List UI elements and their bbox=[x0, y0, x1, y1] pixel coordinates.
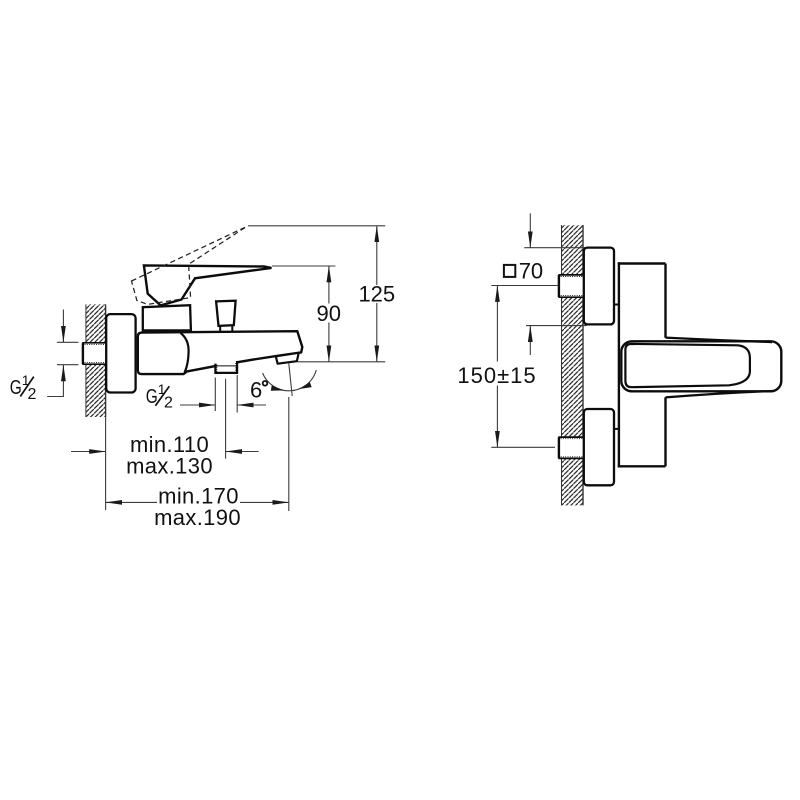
svg-text:70: 70 bbox=[519, 258, 543, 283]
shower stub center extension line bbox=[225, 379, 227, 459]
wall face extension line down bbox=[105, 417, 107, 510]
body/spout joint curve bbox=[181, 333, 189, 373]
svg-text:90: 90 bbox=[317, 301, 341, 326]
extension line at solid handle top bbox=[272, 265, 335, 267]
extension line at spout bottom bbox=[298, 361, 386, 363]
handle lever raised (dashed alternate position) bbox=[132, 227, 247, 305]
lever arm bottom edge bbox=[666, 391, 773, 397]
svg-text:2: 2 bbox=[164, 394, 173, 411]
top stub center extension line bbox=[491, 285, 559, 287]
square-70 dimension down arrow bbox=[529, 213, 531, 247]
escutcheon bottom extension line bbox=[526, 325, 587, 327]
lever arm top edge bbox=[666, 338, 773, 343]
top escutcheon (front) bbox=[584, 248, 614, 325]
inlet stub dimension arrows bbox=[62, 310, 64, 397]
bottom supply stub G1/2 bbox=[558, 437, 584, 459]
handle lever end face (front) bbox=[625, 344, 750, 387]
inlet stub upper tick line bbox=[57, 341, 79, 343]
svg-text:max.190: max.190 bbox=[154, 505, 241, 530]
G 1/2 leader (left) bbox=[47, 396, 64, 398]
square symbol of square-70 label bbox=[504, 265, 515, 277]
svg-text:6: 6 bbox=[250, 377, 262, 402]
extension line at raised handle tip bbox=[248, 225, 385, 227]
bottom stub center extension line bbox=[491, 446, 555, 448]
step tick upper bbox=[614, 304, 620, 306]
dimension min170/max190 line with arrows bbox=[106, 501, 289, 503]
bottom escutcheon (front) bbox=[584, 409, 614, 485]
shower outlet stub G1/2 under spout bbox=[215, 361, 237, 373]
inlet stub lower tick line bbox=[57, 364, 79, 366]
step tick lower bbox=[614, 428, 620, 430]
svg-text:max.130: max.130 bbox=[126, 454, 213, 479]
aerator tilted axis line bbox=[289, 363, 292, 396]
svg-text:125: 125 bbox=[358, 282, 395, 307]
aerator at spout tip bbox=[276, 353, 299, 364]
swivel arc arrowhead right bbox=[299, 382, 312, 389]
dimension min110/max130 arrows bbox=[71, 451, 259, 453]
faucet body (front) bbox=[618, 262, 666, 467]
diverter knob stem bbox=[220, 326, 232, 332]
diverter knob bbox=[216, 301, 236, 326]
dimension 125 line with arrows bbox=[376, 226, 378, 362]
wall section (hatched) bbox=[86, 304, 106, 417]
G 1/2 label (left) bbox=[10, 372, 37, 403]
swivel arc arrowhead left bbox=[271, 386, 284, 391]
wall escutcheon flange (side) bbox=[106, 314, 135, 392]
6 degree label bbox=[250, 377, 267, 402]
handle grip outer (front) bbox=[621, 341, 781, 391]
supply inlet stub G1/2 through wall bbox=[82, 343, 107, 365]
svg-text:2: 2 bbox=[28, 386, 37, 403]
G 1/2 label (under spout) bbox=[146, 381, 173, 411]
swivel arc (6 deg) bbox=[263, 370, 317, 391]
shower stub width dimension arrows G1/2 bbox=[180, 404, 266, 406]
shower stub left extension line bbox=[214, 378, 216, 412]
faucet body and spout silhouette bbox=[138, 331, 302, 374]
wall section (hatched, front view) bbox=[562, 225, 584, 505]
handle lever (solid position) bbox=[144, 265, 272, 305]
aerator center vertical extension line bbox=[288, 397, 290, 511]
escutcheon top extension line bbox=[524, 247, 586, 249]
dimension 90 line with arrows bbox=[328, 266, 330, 362]
top supply stub G1/2 bbox=[558, 275, 584, 298]
cartridge housing under handle bbox=[143, 305, 191, 330]
square-70 dimension up arrow bbox=[529, 326, 531, 355]
shower stub right extension line bbox=[236, 375, 238, 413]
dimension 150+-15 line with arrows bbox=[496, 286, 498, 448]
svg-text:150±15: 150±15 bbox=[457, 363, 536, 388]
